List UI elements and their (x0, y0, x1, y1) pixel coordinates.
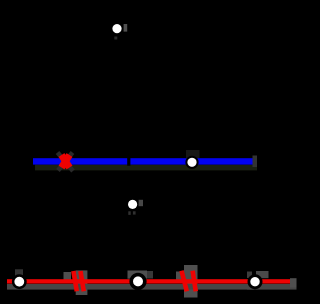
break S2 slashes (182, 271, 196, 292)
gray box behind node F (247, 272, 252, 279)
faint label above node B (186, 150, 200, 158)
node F ring (248, 274, 263, 289)
node P-infinity (top point) (112, 24, 121, 33)
node D (bottom-left point) (14, 277, 24, 287)
node E ring (129, 273, 146, 290)
gray box behind break S2 (184, 265, 198, 298)
node B (white point on blue line) (187, 158, 196, 167)
label near top point (124, 24, 128, 32)
wire shadow under red line (7, 284, 297, 290)
break S1 slashes (73, 271, 83, 291)
cross X1 (red cross on blue line) (62, 155, 70, 168)
wire shadow under blue line (35, 165, 257, 171)
node C (middle lower point) (128, 200, 137, 209)
wire red line (bottom axis) (7, 279, 290, 283)
cross shadow (gray X behind) (58, 153, 74, 172)
gray label box above node D (15, 269, 23, 275)
node F (bottom-right point) (250, 277, 259, 286)
node E (bottom-middle point) (133, 276, 143, 286)
gray stub at right end of blue line (253, 156, 258, 168)
tick gap in blue line (127, 157, 130, 166)
gray box behind node E (128, 271, 148, 279)
faint marks below node C (128, 211, 130, 215)
gray box behind break S1 (76, 270, 88, 295)
node B ring (185, 156, 198, 169)
faint mark below top point (114, 37, 117, 40)
gray stub at right end of red line (290, 278, 297, 287)
label right of node C (139, 200, 143, 206)
wire blue line (middle axis) (33, 158, 253, 164)
node D ring (12, 274, 27, 289)
